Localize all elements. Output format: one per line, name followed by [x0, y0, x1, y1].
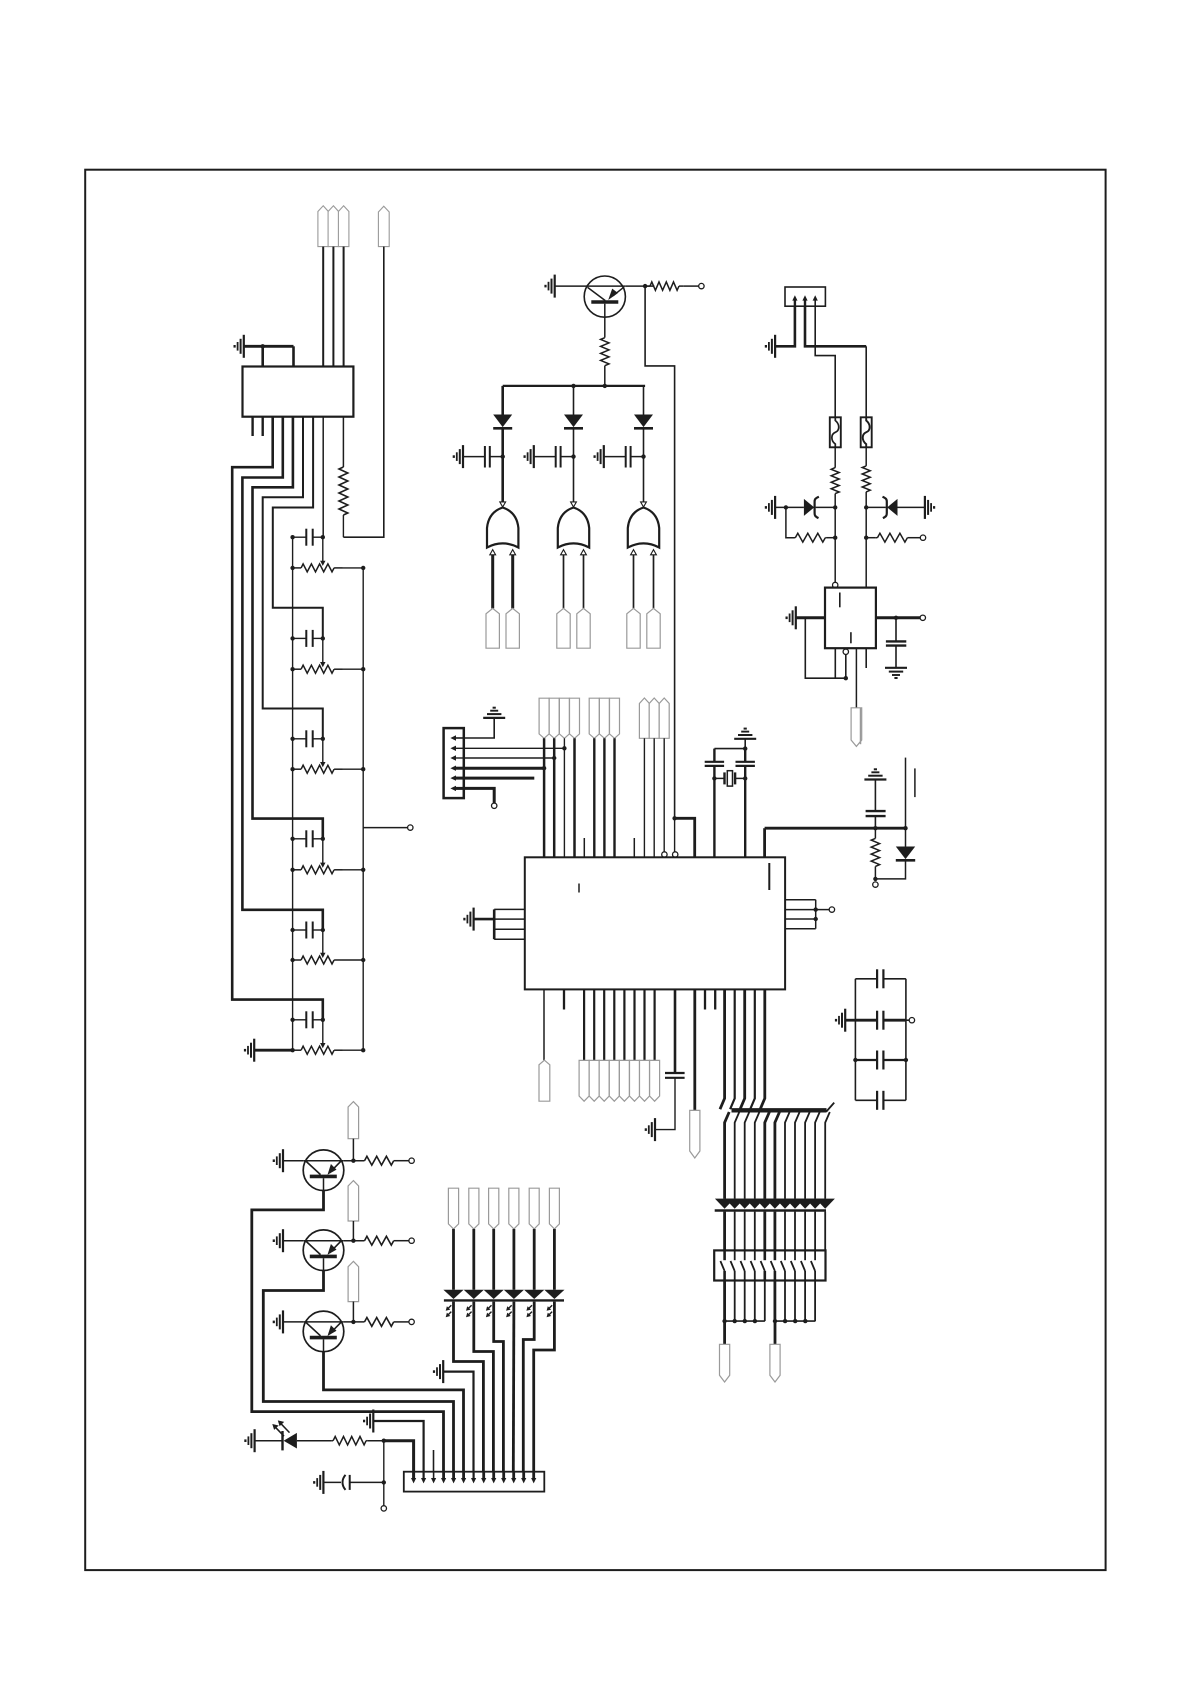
wire R9 to T	[394, 1160, 409, 1162]
zener ZD2	[883, 497, 898, 518]
wire CN2-4	[464, 767, 544, 770]
wire U2 pin6 to stage3	[263, 417, 323, 739]
U1 mark1	[578, 884, 580, 893]
IC U1	[525, 857, 785, 989]
transistor Q1	[584, 276, 625, 317]
wire U2 pin4 to stage5	[242, 417, 322, 930]
wire ZD1 to J	[816, 506, 836, 508]
ground G20	[434, 1360, 443, 1383]
gate output arrow 3	[641, 502, 647, 507]
connector flag E1	[579, 1060, 589, 1101]
wire J to CN4-1	[384, 1441, 414, 1472]
connector flag L1	[448, 1188, 458, 1229]
junction capblock	[853, 1058, 908, 1062]
wire U1 flag6	[633, 989, 635, 1060]
junction line R	[773, 1319, 816, 1323]
wire D4 down	[875, 862, 905, 879]
junction JLED	[382, 1439, 386, 1443]
photodiode D7	[283, 1431, 297, 1450]
wire flagC3	[663, 738, 665, 852]
capacitor C4 stage4	[293, 830, 323, 847]
junction stage1	[290, 535, 365, 570]
wire C11 to line	[874, 816, 876, 828]
wire to flag G1f	[723, 1321, 726, 1344]
wire CN2-5	[464, 777, 535, 780]
wire bus down11	[825, 1112, 830, 1199]
wire bus down6	[775, 1112, 780, 1199]
terminal T7	[909, 1018, 914, 1023]
capacitor C11	[866, 811, 886, 816]
wire flagB x604	[603, 738, 605, 857]
zener ZD1	[804, 497, 819, 518]
junction U1r	[814, 907, 818, 921]
diode D2	[564, 415, 583, 429]
capacitor C12	[665, 1073, 685, 1078]
fuse F2	[861, 417, 872, 447]
terminal T10	[409, 1319, 414, 1324]
ground G1	[235, 335, 244, 358]
connector flag gate 2.1	[557, 608, 570, 648]
wire col866 down	[865, 507, 867, 587]
diode array D5	[715, 1199, 835, 1211]
LED array D6	[443, 1290, 564, 1301]
wire C8 to gnd	[895, 646, 897, 668]
wire C12 gnd	[655, 1078, 675, 1130]
connector flag L2	[469, 1188, 479, 1229]
wire rung C13	[855, 978, 906, 980]
connector flag G1f	[720, 1344, 730, 1382]
ground G17	[836, 1009, 845, 1032]
wire flagA x544	[543, 738, 546, 857]
wire flag Q4	[352, 1302, 354, 1322]
junction CN2-4	[542, 766, 546, 770]
wire flag Q3	[352, 1221, 354, 1241]
gate U3	[487, 508, 518, 548]
wire flagA x574	[573, 738, 576, 857]
ground G14 earth	[864, 769, 886, 779]
connector flag A4	[570, 698, 580, 738]
connector CN2	[444, 728, 464, 798]
resistor VR3 stage3	[293, 765, 364, 773]
wire gnd-U1	[474, 918, 495, 921]
CN2 pin arrow 5	[450, 775, 463, 780]
wire gnd to U2 top	[244, 346, 294, 366]
wire R2 to bus	[604, 366, 606, 386]
terminal T5	[873, 882, 878, 887]
connector flag gate 1.2	[506, 608, 519, 648]
connector flag E7	[640, 1060, 650, 1101]
resistor R1	[339, 417, 348, 538]
junction line L	[722, 1319, 765, 1323]
wire gnd to C11	[874, 780, 876, 811]
wire bus down7	[785, 1112, 790, 1199]
ground G11 earth	[885, 668, 907, 678]
wire capblock out	[906, 1019, 909, 1021]
connector flag A2	[549, 698, 559, 738]
wire RN1 down7	[784, 1281, 786, 1322]
wire U1 flag2	[593, 989, 595, 1060]
stray line3	[914, 768, 916, 797]
connector flag gate 2.2	[577, 608, 590, 648]
wire LED6 to CN4	[534, 1302, 555, 1472]
resistor R7	[876, 533, 909, 542]
ground G12 earth	[483, 708, 505, 718]
wire CN3 pin2	[805, 306, 866, 417]
wire gnd to C cap2	[534, 456, 556, 458]
cap block rail R	[905, 979, 907, 1101]
pin stub U1 b14	[714, 989, 716, 1009]
wire gnd C17	[323, 1481, 341, 1483]
regulator U6	[825, 588, 876, 649]
gate output arrow 2	[571, 502, 577, 507]
wire RN1 down4	[754, 1281, 756, 1322]
ground G18	[274, 1149, 283, 1172]
wire flagC1	[643, 738, 645, 857]
pin stub CN4-3	[433, 1450, 435, 1472]
CN3 pin arrows	[792, 295, 818, 306]
right rail	[362, 568, 364, 1050]
connector CN3	[785, 287, 825, 306]
wire flagL4	[513, 1229, 516, 1290]
diode D4	[896, 847, 915, 861]
capacitor C16	[877, 1091, 883, 1110]
connector flag P1	[318, 206, 329, 247]
capacitor C8	[886, 641, 906, 645]
trimmer wiper arrow stage2	[320, 638, 325, 667]
trimmer wiper arrow stage1	[320, 537, 325, 566]
wire cap3 to node	[631, 456, 644, 458]
wire gnd to C cap1	[463, 456, 485, 458]
wire CN2-1	[464, 718, 494, 738]
wire R7 to terminal	[909, 537, 920, 539]
junction J2	[672, 816, 676, 820]
wire bus to D2	[573, 386, 575, 415]
transistor Q3	[303, 1230, 344, 1271]
wire R10 to T	[394, 1240, 409, 1242]
wire bus up2	[730, 989, 735, 1109]
wire C17 to J	[350, 1481, 384, 1483]
wire U1 b11	[674, 989, 677, 1072]
connector flag E8	[650, 1060, 660, 1101]
resistor VR2 stage2	[293, 665, 364, 673]
wire gate input 3.2	[653, 555, 655, 609]
junction node3	[641, 454, 645, 458]
wire U1 b12	[693, 989, 696, 1110]
terminal T3	[920, 615, 925, 620]
diode D3	[634, 415, 653, 429]
junction stage3	[290, 737, 365, 772]
wire R5 down	[865, 492, 867, 508]
wire U1 flag4	[613, 989, 615, 1060]
wire U6 b2	[845, 655, 847, 679]
wire bus down5	[765, 1112, 770, 1199]
capacitor C17	[343, 1475, 350, 1490]
wire D2 to node	[573, 430, 575, 457]
wire line to D4	[905, 828, 907, 846]
wire diode down6	[774, 1212, 777, 1251]
wire bus up4	[750, 989, 755, 1109]
wire CN3 pin3	[815, 306, 835, 417]
wire flagL5	[533, 1229, 536, 1290]
terminal U1 t1	[662, 852, 667, 857]
junction Jx	[743, 746, 747, 750]
wire xtal colL	[713, 749, 715, 858]
resistor R3	[645, 282, 684, 290]
wire P4 down	[343, 247, 383, 538]
wire rung C15	[855, 1059, 906, 1061]
CN2 pin arrow 4	[450, 766, 463, 771]
gate output arrow 1	[500, 502, 506, 507]
capacitor C3 stage3	[293, 730, 323, 747]
junction Q2	[351, 1159, 355, 1163]
wire U6 b4	[865, 648, 867, 668]
connector flag E4	[609, 1060, 619, 1101]
capacitor C13	[877, 969, 883, 988]
crystal X1	[714, 771, 745, 786]
wire gnd Q2	[283, 1160, 303, 1162]
ground G6	[595, 445, 604, 468]
ground G23	[314, 1471, 323, 1494]
wire flagA x554	[553, 738, 556, 857]
capacitor C7	[485, 446, 490, 468]
wire bus down10	[815, 1112, 820, 1199]
wire U1 flag5	[623, 989, 625, 1060]
wire rung C16	[855, 1099, 906, 1101]
CN4 pin arrows	[411, 1472, 536, 1484]
resistor R11	[365, 1318, 394, 1327]
wire to flag G2f	[774, 1321, 777, 1344]
wire gnd to C cap3	[604, 456, 626, 458]
junction stage2	[290, 636, 365, 671]
wire flagA x564	[563, 738, 565, 857]
wire LED3 to CN4	[494, 1302, 504, 1472]
resistor R6	[794, 533, 827, 542]
wire cap1 to node	[490, 456, 503, 458]
wire Q3 to R	[344, 1240, 365, 1242]
wire R3 to terminal	[684, 285, 699, 287]
D7 arrows	[272, 1420, 289, 1436]
terminal T6	[829, 907, 834, 912]
trimmer wiper arrow stage4	[320, 839, 325, 868]
wire U1 flag3	[603, 989, 605, 1060]
connector flag P3	[338, 206, 349, 247]
connector flag gate 1.1	[486, 608, 499, 648]
trimmer wiper arrow stage5	[320, 930, 325, 958]
wire bus down3	[745, 1112, 750, 1199]
pin stub U2-1	[251, 417, 253, 436]
wire LED5 to CN4	[523, 1302, 534, 1472]
wire diode down9	[804, 1212, 806, 1251]
junction CN2-2	[562, 746, 566, 750]
wire CN2-3	[464, 757, 554, 759]
U1 left pins	[494, 909, 525, 939]
wire node1 to gate	[501, 457, 504, 503]
terminal T1	[699, 283, 704, 288]
gate input arrow 2.1	[561, 550, 567, 555]
connector flag E2	[589, 1060, 599, 1101]
wire U6 pin b1	[834, 648, 836, 678]
ground G21	[364, 1410, 373, 1433]
wire bus to D3	[643, 386, 645, 415]
wire Q2 collector	[252, 1191, 444, 1472]
resistor R4	[831, 468, 839, 494]
resistor VR1 stage1	[293, 564, 364, 572]
wire flag Q2	[352, 1139, 354, 1161]
junction Q4	[351, 1320, 355, 1324]
LED emission arrows	[446, 1305, 553, 1317]
fuse F1	[830, 417, 841, 447]
gate input arrow 3.1	[631, 550, 637, 555]
wire xtal top	[714, 739, 745, 749]
wire gnd-U6	[796, 616, 825, 619]
wire to R7	[866, 537, 876, 539]
connector flag P4	[378, 206, 389, 246]
junction JR6	[833, 536, 837, 540]
connector flag G2f	[770, 1344, 780, 1382]
terminal U1 t2	[673, 852, 678, 857]
pin stub U2-2	[262, 417, 264, 436]
wire gnd to ZD1	[775, 506, 804, 508]
wire CN3 pin1 gnd	[775, 306, 795, 346]
wire D1 to node	[501, 430, 504, 457]
wire U2 pin5 to stage4	[253, 417, 323, 839]
wire diode down4	[754, 1212, 756, 1251]
resistor R5	[862, 466, 870, 492]
wire RN1 down5	[764, 1281, 766, 1322]
wire R6 to col	[827, 537, 836, 539]
wire flagB x594	[593, 738, 595, 857]
wire diode down10	[814, 1212, 816, 1251]
resistor VR6 stage6	[293, 1046, 364, 1054]
wire Q2 to R	[344, 1160, 365, 1162]
capacitor C2 stage2	[293, 630, 323, 647]
wire gnd Q4	[283, 1321, 303, 1323]
wire flagL3	[492, 1229, 495, 1290]
wire LED2 to CN4	[474, 1302, 494, 1472]
wire J1 down to U1	[645, 286, 675, 818]
wire flagL1	[452, 1229, 455, 1290]
wire Q4 to R	[344, 1321, 365, 1323]
connector flag gate 3.1	[627, 608, 640, 648]
capacitor C9	[705, 762, 724, 766]
capacitor C9	[626, 446, 631, 468]
wire flagB x614	[613, 738, 615, 857]
gate input arrow 2.2	[581, 550, 587, 555]
junction CN2-3	[552, 756, 556, 760]
wire flagL6	[553, 1229, 556, 1290]
transistor Q4	[303, 1311, 344, 1352]
IC U2	[243, 367, 354, 417]
wire RN1 down2	[734, 1281, 736, 1322]
wire R16 to J	[368, 1440, 384, 1442]
connector CN4	[404, 1472, 545, 1492]
wire flagL2	[472, 1229, 475, 1290]
wire G21 to CN4	[373, 1421, 423, 1472]
wire U1 flag1	[583, 989, 585, 1060]
wire bus down1	[725, 1112, 730, 1199]
wire bus down4	[755, 1112, 760, 1199]
wire col835 down	[834, 507, 836, 582]
connector flag L6	[549, 1188, 559, 1229]
junction bus1	[571, 384, 607, 388]
wire J2 to U1	[675, 818, 695, 857]
connector flag Q3	[348, 1181, 359, 1221]
gate U5	[628, 508, 659, 548]
cap block rail L	[854, 979, 856, 1101]
wire bus up5	[760, 989, 765, 1109]
branch bus	[503, 385, 645, 387]
U6 mark2	[850, 632, 852, 643]
resistor R2	[601, 337, 609, 366]
junction JV1	[873, 826, 908, 830]
resistor network RN1	[714, 1250, 825, 1280]
CN2 pin arrow 1	[450, 735, 463, 740]
wire diode down11	[824, 1212, 826, 1251]
wire LED1 to CN4	[454, 1302, 484, 1472]
stray line2	[905, 758, 907, 829]
RN1 elements	[720, 1250, 815, 1280]
wire gate input 3.1	[633, 555, 635, 609]
wire U1 flag8	[653, 989, 655, 1060]
border frame	[85, 170, 1105, 1570]
connector flag B3	[610, 698, 620, 738]
transistor Q2	[303, 1150, 344, 1191]
U1 mark2	[768, 863, 770, 890]
wire P1 to U2	[323, 247, 343, 367]
junction JZ2	[864, 505, 868, 509]
wire bus to D1	[501, 386, 504, 415]
junction JC17	[382, 1480, 386, 1484]
U1 right pins	[785, 900, 816, 929]
wire bus up3	[740, 989, 745, 1109]
wire RN1 down8	[794, 1281, 796, 1322]
stray line1	[860, 708, 862, 744]
wire diode down5	[763, 1212, 766, 1251]
junction JR7	[864, 536, 868, 540]
capacitor C1 stage1	[293, 529, 323, 546]
wire cap2 to node	[561, 456, 574, 458]
ground G4	[454, 445, 463, 468]
junction node2	[571, 454, 575, 458]
wire J down	[383, 1441, 385, 1506]
connector flag gate 3.2	[647, 608, 660, 648]
U6 mark1	[839, 593, 841, 608]
wire J to ZD2	[866, 506, 886, 508]
junction JZ1	[784, 505, 838, 509]
wire U2 pin3 to stage6	[232, 417, 323, 1020]
connector flag U6out	[851, 708, 862, 747]
ground G5	[525, 445, 534, 468]
connector flag L4	[509, 1188, 519, 1229]
ground G3	[546, 275, 555, 298]
resistor R16	[332, 1437, 368, 1445]
connector flag A1	[539, 698, 549, 738]
wire bus down9	[805, 1112, 810, 1199]
CN2 pin arrow 3	[450, 755, 463, 760]
ground G19	[274, 1229, 283, 1252]
gate input arrow 1.1	[490, 550, 496, 555]
ground G16	[646, 1118, 655, 1141]
wire LED4 to CN4	[512, 1302, 515, 1472]
resistor R8	[871, 828, 879, 879]
terminal T2	[920, 535, 925, 540]
wire bus up1	[720, 989, 725, 1109]
connector flag C3	[659, 698, 669, 738]
CN2 pin arrow 2	[450, 746, 463, 751]
ground G15	[464, 908, 473, 931]
ground G22	[245, 1429, 254, 1452]
terminal T_ladder	[408, 825, 413, 830]
